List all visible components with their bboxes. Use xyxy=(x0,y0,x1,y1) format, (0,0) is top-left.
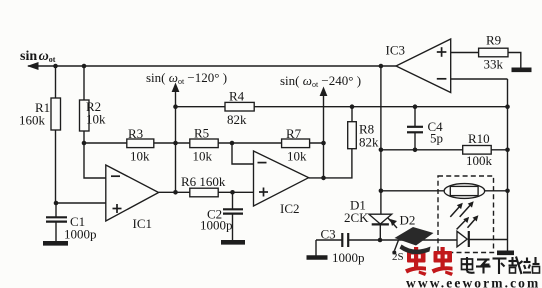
svg-text:R3: R3 xyxy=(128,126,143,141)
watermark: chinese text dianzi xiazaizhan xyxy=(462,257,540,275)
ground: bottom right xyxy=(497,251,514,256)
ground: right of R9 xyxy=(512,68,532,73)
wire: IC1 output to R6 xyxy=(159,191,190,193)
node: junction C2 / R6 xyxy=(230,190,235,195)
wire: vertical node sin(wot-120) x=175.5 xyxy=(175,91,177,192)
svg-text:10k: 10k xyxy=(193,149,213,164)
wire: R4 line y=106.7 xyxy=(176,106,508,108)
photoresistor LDR of opto-coupler xyxy=(444,184,485,199)
svg-text:sin( ωot −240° ): sin( ωot −240° ) xyxy=(280,73,361,89)
node: junction right vertical / R4 line xyxy=(505,104,510,109)
resistor R5 xyxy=(190,126,218,164)
wire: LDR line y=190.8 xyxy=(381,190,444,192)
svg-text:IC1: IC1 xyxy=(133,216,153,231)
wire: IC3 + input to R9 xyxy=(451,52,479,54)
node: junction right vertical / R10 line xyxy=(505,148,510,153)
node: junction R2 bottom / R3 line xyxy=(82,141,87,146)
node: junction C4 top xyxy=(413,104,418,109)
wire: IC2 output to R8 bottom corner xyxy=(309,149,352,178)
wire: R9 right lead to ground xyxy=(508,53,521,69)
resistor R2 xyxy=(80,66,107,143)
svg-text:160k: 160k xyxy=(19,113,46,128)
node: arrow head sin(wot-120) xyxy=(172,83,180,93)
svg-text:10k: 10k xyxy=(86,112,106,127)
node: junction D1 / C3 line xyxy=(378,238,383,243)
node: junction IC2 output xyxy=(321,176,326,181)
node: junction x=380.9 / R10 line xyxy=(379,148,384,153)
svg-text:R9: R9 xyxy=(486,33,501,48)
svg-text:10k: 10k xyxy=(287,149,307,164)
svg-text:R7: R7 xyxy=(286,126,302,141)
svg-text:C3: C3 xyxy=(321,227,336,242)
wire: R3/R5/R7 line y=143 xyxy=(84,142,324,144)
node: output arrow head (left) xyxy=(27,62,39,70)
node: junction C1 / R1 bottom xyxy=(54,201,59,206)
node: junction R2 top xyxy=(82,64,87,69)
svg-text:IC2: IC2 xyxy=(280,201,300,216)
node: junction IC1 output xyxy=(173,190,178,195)
resistor R8 xyxy=(348,107,379,150)
node: junction x=175.5 R3/R5 xyxy=(173,141,178,146)
node: junction R8 top xyxy=(350,104,355,109)
capacitor C4 xyxy=(407,107,443,150)
svg-text:IC3: IC3 xyxy=(386,43,406,58)
svg-text:sinωot: sinωot xyxy=(20,49,56,64)
wire: top output line y=66 xyxy=(28,65,396,67)
resistor R9 xyxy=(479,33,508,72)
wire: R10 line y=149.8 xyxy=(381,149,508,151)
resistor R6 xyxy=(181,174,226,197)
svg-text:82k: 82k xyxy=(359,135,379,150)
op-amp IC1 xyxy=(106,165,159,231)
svg-text:sin( ωot −120° ): sin( ωot −120° ) xyxy=(146,70,227,86)
wire: C3 left to ground xyxy=(315,240,317,256)
wire: vertical node sin(wot-240) x=323.5 xyxy=(323,95,325,178)
svg-text:1000p: 1000p xyxy=(64,227,97,242)
resistor R7 xyxy=(282,126,310,164)
op-amp IC2 xyxy=(254,151,309,216)
svg-text:5p: 5p xyxy=(430,131,443,146)
ground: under C1 xyxy=(43,241,68,246)
wire: IC3 output vertical x=380.9 xyxy=(380,66,382,214)
LED of opto-coupler xyxy=(457,231,508,247)
svg-text:R6 160k: R6 160k xyxy=(181,174,226,189)
svg-text:R4: R4 xyxy=(229,89,245,104)
node: junction R1 top xyxy=(53,64,58,69)
node: junction R7 right / x=323.5 xyxy=(321,141,326,146)
node: junction IC3 output at apex xyxy=(379,64,384,69)
resistor R1 xyxy=(19,66,61,203)
component box: opto-coupler dashed enclosure xyxy=(438,176,494,253)
svg-text:1000p: 1000p xyxy=(332,250,365,265)
resistor R10 xyxy=(463,131,493,168)
node: arrow head sin(wot-240) xyxy=(320,87,328,97)
node: junction R5/R7 to IC2 inverting xyxy=(230,141,235,146)
diode D1 xyxy=(344,198,392,241)
op-amp IC3 xyxy=(386,39,451,93)
wire: IC3 - input to right vertical xyxy=(451,78,508,80)
svg-text:10k: 10k xyxy=(130,149,150,164)
capacitor C3 xyxy=(321,227,365,266)
svg-text:2CK: 2CK xyxy=(344,210,369,225)
wire: IC2 inverting input L-wire xyxy=(232,143,254,164)
svg-text:D2: D2 xyxy=(400,213,416,228)
svg-text:R10: R10 xyxy=(468,131,490,146)
ground: under C2 xyxy=(221,240,245,245)
ground: left of C3 xyxy=(307,255,328,260)
svg-text:82k: 82k xyxy=(227,112,247,127)
wire: IC1 inverting input L-wire xyxy=(84,143,106,178)
node: junction C4 bottom xyxy=(413,148,418,153)
watermark: graduation cap of eeworm logo xyxy=(392,227,434,263)
wire: IC1 noninverting input from C1 node xyxy=(56,202,106,204)
node: light arrows inside opto-coupler xyxy=(450,204,476,229)
node: junction right vertical / LDR line xyxy=(505,189,510,194)
resistor R3 xyxy=(127,126,154,164)
node: junction x=175.5 R4 line xyxy=(173,104,178,109)
resistor R4 xyxy=(225,89,254,127)
svg-text:www.eeworm.com: www.eeworm.com xyxy=(406,276,540,288)
capacitor C1 xyxy=(46,203,97,242)
svg-text:1000p: 1000p xyxy=(200,218,233,233)
wire: right vertical x=507.5 xyxy=(507,79,509,251)
svg-text:R5: R5 xyxy=(194,126,209,141)
watermark: red insect characters xyxy=(405,247,453,276)
capacitor C2 xyxy=(200,192,243,240)
wire: R6 right to IC2 + input xyxy=(218,191,253,193)
svg-text:33k: 33k xyxy=(484,57,504,72)
svg-text:100k: 100k xyxy=(466,153,493,168)
wire: C3 line y=240 xyxy=(316,239,342,241)
diode D2 (mostly hidden by watermark cap) xyxy=(388,213,415,229)
node: junction x=380.9 / LDR line xyxy=(379,189,384,194)
